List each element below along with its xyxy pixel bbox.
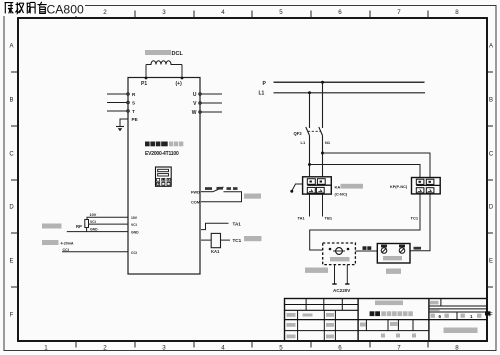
label level transmitter gray [305, 268, 328, 273]
meter indicator box [377, 244, 410, 264]
wire output V [199, 102, 222, 105]
terminal FWD [191, 190, 200, 195]
svg-text:GND: GND [131, 231, 139, 235]
svg-text:RP: RP [76, 224, 82, 229]
svg-text:TB1: TB1 [325, 216, 333, 221]
relay KP pressure relay box [412, 178, 441, 194]
label company name gray [444, 328, 478, 334]
svg-text:2: 2 [103, 345, 107, 352]
svg-text:D: D [9, 205, 14, 211]
svg-text:1: 1 [470, 314, 473, 319]
label switch annotation [205, 187, 238, 190]
terminal 10V inside [131, 216, 138, 220]
wire KA stub TA1 [298, 194, 310, 221]
svg-text:W: W [192, 110, 197, 116]
wire power line L1 [259, 91, 426, 97]
svg-text:10V: 10V [90, 213, 97, 217]
label DCL dc reactor [145, 50, 183, 57]
terminal COM [191, 200, 200, 205]
node TA1 [233, 221, 242, 226]
inverter U1 EV2000 box [128, 78, 200, 275]
node P1 [141, 77, 147, 87]
label KA level relay [335, 184, 364, 197]
wire input S [107, 101, 129, 104]
svg-text:10V: 10V [131, 216, 138, 220]
wire AC220V N [345, 265, 349, 284]
svg-text:(C-NC): (C-NC) [335, 191, 348, 196]
bottom margin zone numbers 1-8 [44, 345, 459, 352]
inductor DCL coil [146, 61, 182, 65]
svg-text:6: 6 [338, 9, 342, 16]
svg-text:L1: L1 [259, 91, 265, 97]
left margin zone letters A-F [9, 44, 14, 319]
svg-text:S: S [132, 101, 135, 106]
wire KP bottom-left to transmitter TC1 [310, 194, 420, 250]
breaker QF2 pole 2 [319, 82, 323, 177]
svg-text:L1: L1 [301, 140, 306, 145]
svg-text:T: T [132, 109, 135, 114]
terminal VCI inside [131, 223, 137, 227]
svg-text:AC220V: AC220V [333, 288, 351, 293]
switch K1 run command [201, 187, 242, 202]
breaker QF2 pole 1 [306, 93, 310, 178]
wire input T [107, 110, 129, 113]
wire +10V [87, 213, 128, 220]
label KP pressure relay [390, 185, 408, 189]
fold mark right edge [485, 311, 491, 315]
svg-text:QF2: QF2 [294, 131, 303, 136]
wire output U [199, 93, 222, 96]
label inverter model line2 [145, 151, 179, 157]
svg-text:KA1: KA1 [211, 249, 220, 254]
wire VCI [89, 220, 129, 224]
svg-text:7: 7 [397, 9, 401, 16]
label indicator gray [386, 269, 401, 274]
svg-text:N1: N1 [325, 140, 331, 145]
svg-text:U: U [193, 92, 197, 98]
label fault output gray [244, 236, 262, 241]
wire AC220V L [332, 265, 336, 284]
svg-text:TC1: TC1 [411, 216, 419, 221]
title block grid [285, 299, 488, 342]
svg-text:P1: P1 [141, 81, 147, 87]
svg-text:C: C [9, 152, 14, 158]
terminal U [193, 92, 197, 98]
node junction pole2 tap [321, 152, 324, 155]
probe arrow level sensor [290, 184, 302, 193]
svg-text:1: 1 [44, 345, 48, 352]
top margin zone numbers 2-8 [103, 9, 459, 16]
title line2 drawing name [370, 311, 413, 316]
svg-text:TC1: TC1 [233, 238, 242, 243]
svg-text:8: 8 [455, 345, 459, 352]
label AC220V [333, 288, 351, 293]
wire reactor right lead to plus [181, 65, 183, 78]
svg-text:B: B [489, 98, 493, 104]
svg-text:CCI: CCI [131, 251, 137, 255]
svg-text:TA1: TA1 [298, 216, 306, 221]
wire signal transmitter to indicator [355, 246, 377, 251]
watermark text CA800 [2, 0, 85, 17]
wire KP bottom-right to indicator [410, 194, 430, 251]
label feedback gray [42, 240, 74, 246]
transmitter level transmitter dashed box [323, 243, 356, 265]
svg-text:DCL: DCL [172, 51, 184, 57]
svg-text:B: B [9, 98, 13, 104]
svg-text:F: F [10, 313, 14, 319]
wire TC1 output right [221, 239, 231, 241]
svg-text:PE: PE [132, 117, 138, 122]
svg-text:EV2000-4T1100: EV2000-4T1100 [145, 151, 179, 157]
svg-text:CCI: CCI [63, 248, 69, 252]
svg-text:3: 3 [162, 9, 166, 16]
svg-text:5: 5 [279, 345, 283, 352]
ground PE earth symbol [116, 127, 124, 132]
svg-text:C: C [489, 152, 494, 158]
wire GND [67, 228, 128, 232]
svg-text:7: 7 [397, 345, 401, 352]
label frequency set gray [42, 224, 62, 229]
terminal W [192, 110, 197, 116]
svg-text:FWD: FWD [191, 190, 200, 195]
right margin tick marks [487, 72, 493, 287]
terminal CCI inside [131, 251, 137, 255]
relay coil KA1 [211, 233, 221, 254]
terminal S [132, 101, 135, 106]
top margin tick marks [76, 11, 428, 19]
terminal T [132, 109, 135, 114]
svg-text:KP(P-NC): KP(P-NC) [390, 185, 408, 189]
terminal V [193, 101, 197, 107]
potentiometer RP [76, 220, 89, 232]
wire TC1 output left [201, 239, 211, 241]
svg-text:TA1: TA1 [233, 221, 242, 226]
label inverter model line1 [145, 142, 183, 147]
svg-text:8: 8 [455, 9, 459, 16]
label N1 below breaker [325, 140, 331, 145]
label L1 below breaker [301, 140, 306, 145]
svg-text:E: E [9, 259, 13, 265]
relay KA level relay box [303, 177, 332, 194]
node junction pole1 tap [308, 163, 311, 166]
wire TA1 output [201, 223, 229, 229]
wire pole1 to pressure relay [310, 165, 421, 178]
wire reactor left lead to P1 [145, 65, 147, 78]
keypad display of inverter [156, 167, 172, 186]
title block field labels gray [287, 301, 440, 339]
wire KA stub TB1 [323, 194, 333, 221]
breaker QF2 link dashed [308, 130, 321, 132]
svg-text:6: 6 [439, 314, 442, 319]
svg-text:VCI: VCI [90, 220, 96, 224]
svg-text:A: A [489, 44, 493, 50]
terminal PE [132, 117, 138, 122]
terminal R [132, 92, 136, 97]
svg-text:4-20mA: 4-20mA [61, 242, 74, 246]
svg-text:2: 2 [103, 9, 107, 16]
svg-text:5: 5 [279, 9, 283, 16]
node junction P tap [321, 81, 324, 84]
svg-text:3: 3 [162, 345, 166, 352]
svg-text:A: A [9, 44, 13, 50]
node TC1 [233, 238, 242, 243]
right margin zone letters A-F [489, 44, 494, 319]
svg-text:GND: GND [90, 228, 98, 232]
label sheet count [431, 314, 482, 319]
svg-text:4: 4 [221, 345, 225, 352]
svg-text:KA: KA [335, 184, 341, 189]
svg-text:6: 6 [338, 345, 342, 352]
node (+) [176, 77, 184, 87]
svg-text:4: 4 [221, 9, 225, 16]
label QF2 [294, 131, 303, 136]
wire output W [199, 111, 222, 114]
bottom margin tick marks [76, 341, 428, 348]
wire PE lead [120, 119, 128, 126]
svg-text:(+): (+) [176, 81, 183, 87]
wire pole2 to pressure relay [323, 153, 431, 178]
svg-text:D: D [489, 205, 494, 211]
title line1 gray [375, 301, 403, 306]
wire CCI [62, 248, 128, 252]
wire input R [107, 93, 129, 96]
label run-stop gray [244, 194, 261, 199]
wire power line P [263, 81, 425, 87]
svg-text:VCI: VCI [131, 223, 137, 227]
left margin tick marks [11, 72, 18, 287]
svg-text:COM: COM [191, 200, 200, 205]
node junction L1 tap [308, 91, 311, 94]
svg-text:E: E [489, 259, 493, 265]
terminal GND inside [131, 231, 139, 235]
svg-text:CA800: CA800 [47, 3, 84, 17]
